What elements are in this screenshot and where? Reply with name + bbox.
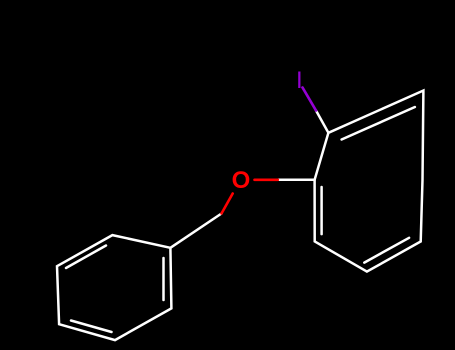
svg-text:O: O	[232, 167, 251, 194]
svg-text:I: I	[296, 67, 303, 94]
